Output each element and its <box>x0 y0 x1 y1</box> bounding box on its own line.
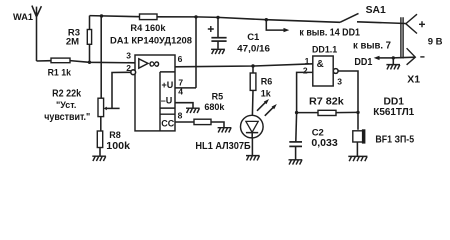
svg-text:DD1.1: DD1.1 <box>312 44 338 55</box>
svg-text:К561ТЛ1: К561ТЛ1 <box>373 107 414 118</box>
capacitor C1 <box>211 17 226 48</box>
svg-text:X1: X1 <box>407 74 420 86</box>
plus sign C1 <box>208 26 214 32</box>
wire op-amp output pin 6 to DD1.1 pin 1 <box>175 64 313 67</box>
svg-text:DA1 КР140УД1208: DA1 КР140УД1208 <box>110 35 192 46</box>
connector X1 socket lines <box>401 17 403 58</box>
svg-text:к выв. 14 DD1: к выв. 14 DD1 <box>299 27 360 38</box>
svg-text:HL1 АЛ307Б: HL1 АЛ307Б <box>195 141 250 152</box>
connector X1 plus pin <box>406 14 417 33</box>
svg-text:+U: +U <box>162 80 174 90</box>
svg-text:DD1: DD1 <box>384 96 405 107</box>
ground under BF1 <box>348 156 367 161</box>
svg-text:2: 2 <box>303 65 308 75</box>
capacitor C2 <box>289 113 302 160</box>
node output junction R7 BF1 <box>356 111 359 114</box>
svg-text:SA1: SA1 <box>366 4 386 16</box>
op-amp inverting input circle pin 2 <box>131 70 136 75</box>
wire pin 2 to R2 wiper <box>112 72 131 108</box>
ground under C1 <box>211 49 225 54</box>
op-amp U1 DA1 box <box>135 55 175 131</box>
wire +9V rail to pin 7 <box>175 17 196 88</box>
resistor R3 <box>87 16 91 63</box>
svg-text:R6: R6 <box>261 76 273 86</box>
wire R7 right <box>336 111 358 113</box>
svg-text:R1 1k: R1 1k <box>48 67 72 78</box>
svg-text:2M: 2M <box>66 37 79 48</box>
plus sign battery <box>419 21 425 27</box>
node rail pin7 branch <box>194 15 197 18</box>
svg-text:6: 6 <box>178 54 183 64</box>
ground at X1 minus <box>386 65 400 70</box>
svg-text:C2: C2 <box>312 128 324 139</box>
wire R2 to R8 <box>100 117 102 131</box>
svg-text:WA1: WA1 <box>13 12 34 23</box>
node rail bias branch <box>100 14 103 17</box>
wire R8 to ground <box>99 148 101 157</box>
svg-text:3: 3 <box>126 51 131 61</box>
svg-text:R7 82k: R7 82k <box>309 96 344 107</box>
buzzer BF1 <box>353 129 366 156</box>
wire pin 4 to ground <box>175 103 193 109</box>
op-amp triangle symbol <box>139 59 148 68</box>
node R7 C2 junction <box>295 111 298 114</box>
op-amp power sub-box lines <box>160 72 175 131</box>
wire X1 minus to ground <box>393 57 415 64</box>
wire SA1 to X1 plus <box>357 22 406 24</box>
svg-text:чувствит.": чувствит." <box>44 112 90 123</box>
svg-text:R5: R5 <box>212 91 224 101</box>
svg-text:∞: ∞ <box>149 56 160 73</box>
svg-text:0,033: 0,033 <box>311 138 338 149</box>
svg-text:"Уст.: "Уст. <box>56 100 76 110</box>
wire R5 to ground <box>211 122 224 128</box>
wire top rail right segment <box>157 17 340 23</box>
svg-text:47,0/16: 47,0/16 <box>237 43 270 54</box>
resistor R1 <box>51 58 70 63</box>
svg-text:3: 3 <box>337 77 342 87</box>
wire LED to ground <box>251 138 253 156</box>
gate output bubble <box>333 69 338 74</box>
svg-text:C1: C1 <box>247 32 260 43</box>
ground under LED <box>246 156 260 161</box>
arrow to pin 7 DD1 <box>374 56 394 60</box>
svg-text:R4 160k: R4 160k <box>130 23 166 34</box>
wire R1 to op-amp pin 3 <box>70 61 135 63</box>
svg-text:9 В: 9 В <box>428 37 443 48</box>
svg-text:1k: 1k <box>261 88 272 98</box>
wire top rail left segment <box>90 16 140 17</box>
wire antenna to R1 <box>37 60 52 62</box>
resistor R4 <box>140 14 158 20</box>
ground under R8 <box>92 156 106 161</box>
antenna WA1 <box>32 6 42 61</box>
resistor R8 <box>97 131 102 148</box>
svg-text:&: & <box>317 59 324 70</box>
svg-text:CC: CC <box>161 118 174 128</box>
connector X1 minus pin <box>407 48 416 65</box>
wire bias line rail to R2 <box>100 16 102 98</box>
wire pin 8 to R5 <box>175 121 194 123</box>
svg-text:–U: –U <box>161 95 173 105</box>
node R6 branch <box>251 64 254 67</box>
arrow to pin 14 DD1 <box>266 20 289 33</box>
svg-text:100k: 100k <box>106 141 130 152</box>
LED HL1 <box>241 99 277 138</box>
svg-text:к выв. 7: к выв. 7 <box>353 41 391 52</box>
svg-text:680k: 680k <box>204 102 225 112</box>
resistor R6 <box>250 66 256 115</box>
wire R7 left <box>297 112 318 114</box>
wire DD1 pin 2 <box>297 72 313 112</box>
ground under C2 <box>289 160 303 165</box>
svg-text:R2 22k: R2 22k <box>52 89 82 100</box>
resistor R7 <box>318 110 336 115</box>
potentiometer R2 <box>98 98 120 116</box>
svg-text:BF1 ЗП-5: BF1 ЗП-5 <box>375 135 414 146</box>
node minus junction <box>392 56 395 59</box>
svg-text:8: 8 <box>178 110 183 120</box>
ground at R5 <box>218 128 232 133</box>
resistor R5 <box>194 119 211 124</box>
svg-text:R8: R8 <box>109 130 121 140</box>
node R3 bottom junction <box>88 61 91 64</box>
wire gate output <box>338 71 358 130</box>
minus sign battery <box>420 56 424 58</box>
svg-text:DD1: DD1 <box>354 57 372 68</box>
switch SA1 <box>340 13 359 22</box>
ground at pin 4 <box>186 108 200 113</box>
node C1 branch <box>216 16 219 19</box>
node annotation branch <box>265 18 268 21</box>
logic gate DD1.1 box <box>313 56 333 86</box>
